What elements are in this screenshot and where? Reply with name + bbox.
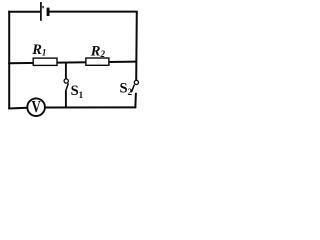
switch S1 lower lead wire	[65, 91, 67, 108]
wire middle horizontal (R1-R2 branch)	[8, 62, 136, 64]
battery long plate (positive)	[40, 2, 42, 21]
wire bottom-left segment (to voltmeter)	[8, 107, 27, 110]
switch S2 blade	[131, 85, 134, 93]
switch S2 terminal circle	[134, 80, 138, 84]
wire top-left segment (battery left lead)	[8, 11, 40, 13]
resistor R1 box	[33, 58, 57, 65]
switch S1 upper lead wire	[65, 62, 67, 79]
switch S1 blade	[66, 83, 69, 91]
wire top-right segment (battery right lead)	[49, 11, 137, 13]
battery short thick plate (negative)	[47, 8, 50, 16]
wire bottom-right segment (voltmeter to right corner)	[45, 106, 136, 108]
svg-text:V: V	[31, 99, 41, 117]
wire left vertical	[8, 11, 10, 109]
resistor R2 box	[86, 58, 109, 65]
ink speck near battery	[42, 6, 44, 8]
switch S1 terminal circle	[64, 79, 68, 83]
wire right vertical upper (top corner to switch S2)	[135, 11, 138, 81]
wire right vertical lower (switch S2 to bottom corner)	[134, 93, 137, 108]
voltmeter V circle	[27, 98, 45, 116]
